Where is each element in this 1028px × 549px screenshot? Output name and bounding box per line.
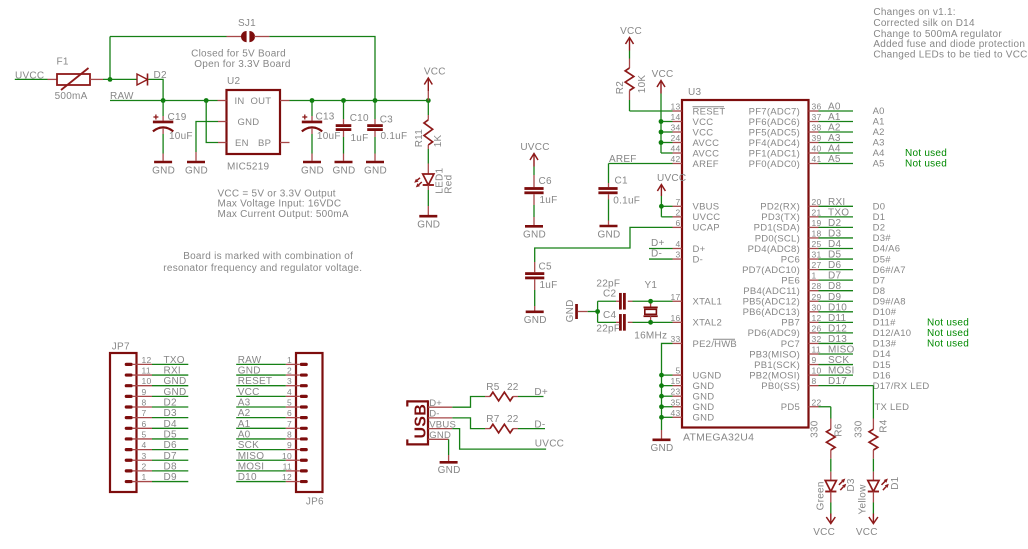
JP7 pin 5 (D5): [125, 437, 133, 440]
svg-text:24: 24: [671, 133, 681, 143]
svg-text:6: 6: [287, 408, 292, 418]
U3 pin 14 (VCC): [673, 121, 683, 123]
JP7 pin 4 (D6): [125, 448, 133, 451]
svg-text:RESET: RESET: [238, 376, 273, 387]
JP7 pin 9 (GND): [125, 395, 133, 398]
net D+ label: [518, 396, 544, 398]
svg-text:GND: GND: [693, 381, 715, 392]
svg-text:A1: A1: [238, 419, 251, 430]
svg-text:BP: BP: [258, 138, 271, 149]
svg-text:2: 2: [287, 366, 292, 376]
JP6 pin 1 (RAW): [300, 363, 308, 366]
svg-text:D14: D14: [873, 349, 891, 360]
svg-text:MOSI: MOSI: [828, 366, 855, 377]
svg-text:IN: IN: [235, 96, 245, 107]
svg-text:PD5: PD5: [781, 402, 800, 413]
LED1 Red: [427, 164, 429, 175]
svg-text:7: 7: [287, 419, 292, 429]
svg-text:D+: D+: [651, 238, 665, 249]
wire D3 to VCC: [830, 503, 832, 514]
ground symbol below C6: [525, 225, 543, 228]
svg-text:D17/RX LED: D17/RX LED: [873, 381, 930, 392]
svg-text:A2: A2: [238, 408, 251, 419]
U3 pin 32 (D13): [809, 342, 819, 344]
svg-text:GND: GND: [693, 402, 715, 413]
capacitor C1 0.1uF: [608, 183, 610, 187]
svg-text:28: 28: [812, 281, 822, 291]
svg-text:D3: D3: [164, 408, 177, 419]
wire crystal ground bus: [588, 311, 598, 313]
junction VCC pin 14: [659, 119, 664, 124]
svg-text:PD1(SDA): PD1(SDA): [754, 223, 800, 234]
wire PE2/HWB to ground bus: [662, 343, 673, 430]
svg-text:GND: GND: [524, 315, 547, 326]
svg-text:D6: D6: [828, 260, 841, 271]
svg-text:TXO: TXO: [828, 207, 849, 218]
svg-text:31: 31: [812, 250, 822, 260]
svg-text:29: 29: [812, 292, 822, 302]
svg-text:UVCC: UVCC: [657, 173, 686, 184]
U3 pin 39 (A3): [809, 142, 819, 144]
svg-text:D16: D16: [873, 370, 891, 381]
svg-text:D4: D4: [828, 239, 841, 250]
svg-text:A5: A5: [873, 159, 885, 170]
svg-text:1K: 1K: [433, 134, 444, 147]
svg-text:D9#/A8: D9#/A8: [873, 296, 906, 307]
svg-text:1: 1: [812, 271, 817, 281]
svg-text:37: 37: [812, 112, 822, 122]
svg-text:D6: D6: [164, 440, 177, 451]
wire SJ1 to VCC rail: [269, 37, 375, 101]
U2 pin EN wire from RAW junction: [206, 101, 218, 143]
JP6 pin 12 (D10): [300, 480, 308, 483]
svg-text:RXI: RXI: [828, 197, 845, 208]
svg-text:330: 330: [810, 420, 821, 438]
svg-text:A3: A3: [873, 138, 885, 149]
svg-text:D12: D12: [828, 323, 847, 334]
svg-text:AREF: AREF: [693, 159, 719, 170]
svg-text:R6: R6: [833, 423, 844, 436]
U3 pin 36 (A0): [809, 110, 819, 112]
wire D1 to VCC: [872, 503, 874, 514]
junction XTAL2: [648, 320, 653, 325]
junction VBUS pin 7: [659, 204, 664, 209]
svg-text:16: 16: [671, 313, 681, 323]
svg-text:0.1uF: 0.1uF: [381, 131, 408, 142]
svg-text:VCC: VCC: [693, 127, 714, 138]
svg-text:Corrected silk on D14: Corrected silk on D14: [873, 18, 975, 29]
U3 pin 10 (MOSI): [809, 374, 819, 376]
svg-text:32: 32: [812, 334, 822, 344]
capacitor C19 10uF: [162, 101, 164, 117]
svg-text:XTAL1: XTAL1: [693, 297, 723, 308]
svg-text:D2: D2: [873, 223, 886, 234]
svg-text:C5: C5: [539, 262, 552, 273]
svg-text:D7: D7: [164, 451, 177, 462]
svg-text:PC7: PC7: [781, 339, 800, 350]
svg-text:44: 44: [671, 144, 681, 154]
svg-text:8: 8: [287, 429, 292, 439]
svg-text:PD6(ADC9): PD6(ADC9): [748, 328, 800, 339]
JP7 pin 6 (D4): [125, 427, 133, 430]
svg-text:GND: GND: [651, 443, 674, 454]
wire fuse to diode: [103, 78, 137, 80]
U3 pin 4 (D+): [673, 248, 683, 250]
U3 pin 35 (GND): [673, 406, 683, 408]
svg-text:22: 22: [507, 414, 519, 425]
svg-text:A2: A2: [828, 123, 841, 134]
U3 pin 34 (VCC): [673, 131, 683, 133]
svg-text:PD7(ADC10): PD7(ADC10): [742, 265, 800, 276]
svg-text:A1: A1: [828, 112, 841, 123]
svg-text:XTAL2: XTAL2: [693, 318, 723, 329]
svg-text:3: 3: [142, 451, 147, 461]
svg-text:2: 2: [142, 461, 147, 471]
svg-text:C10: C10: [350, 113, 369, 124]
svg-text:22: 22: [507, 382, 519, 393]
svg-text:U2: U2: [227, 76, 240, 87]
svg-text:5: 5: [287, 398, 292, 408]
svg-text:1: 1: [287, 355, 292, 365]
svg-text:D7: D7: [873, 275, 886, 286]
U3 pin 43 (GND): [673, 416, 683, 418]
svg-text:RXI: RXI: [164, 366, 181, 377]
JP6 pin 7 (A1): [300, 427, 308, 430]
svg-text:PB1(SCK): PB1(SCK): [754, 360, 800, 371]
svg-text:6: 6: [676, 218, 681, 228]
svg-text:D11#: D11#: [873, 318, 896, 329]
U3 pin 28 (D8): [809, 290, 819, 292]
svg-text:GND: GND: [152, 165, 175, 176]
U2 pin BP stub: [280, 142, 290, 144]
VCC power symbol at regulator output: [424, 78, 432, 85]
wire GND pin 23: [662, 395, 673, 397]
junction GND 43: [659, 415, 664, 420]
svg-text:A0: A0: [873, 106, 885, 117]
svg-text:OUT: OUT: [251, 96, 272, 107]
svg-text:VCC: VCC: [424, 67, 446, 78]
svg-text:C1: C1: [615, 176, 628, 187]
svg-text:35: 35: [671, 397, 681, 407]
svg-text:MISO: MISO: [828, 345, 855, 356]
svg-text:GND: GND: [301, 165, 324, 176]
svg-text:GND: GND: [333, 165, 356, 176]
svg-text:GND: GND: [238, 366, 261, 377]
svg-text:SCK: SCK: [828, 355, 849, 366]
svg-text:7: 7: [142, 408, 147, 418]
svg-text:D5: D5: [828, 250, 841, 261]
svg-text:8: 8: [142, 398, 147, 408]
wire XTAL2 to pin 16: [651, 321, 673, 323]
svg-text:PB6(ADC13): PB6(ADC13): [743, 307, 800, 318]
svg-text:D3#: D3#: [873, 233, 892, 244]
svg-text:12: 12: [812, 313, 822, 323]
svg-text:GND: GND: [598, 229, 621, 240]
wire XTAL1 to pin 17: [651, 300, 673, 302]
svg-text:GND: GND: [364, 165, 387, 176]
svg-text:GND: GND: [164, 376, 187, 387]
VCC power symbol below D1: [869, 517, 878, 524]
JP6 pin 3 (RESET): [300, 384, 308, 387]
svg-text:resonator frequency and regula: resonator frequency and regulator voltag…: [163, 263, 362, 274]
svg-text:MIC5219: MIC5219: [227, 162, 270, 173]
svg-text:D8: D8: [828, 281, 841, 292]
svg-text:A5: A5: [828, 154, 841, 165]
svg-text:D6#/A7: D6#/A7: [873, 265, 906, 276]
junction VCC / R11: [426, 98, 431, 103]
svg-text:Board is marked with combinati: Board is marked with combination of: [183, 251, 353, 262]
svg-text:10: 10: [142, 376, 152, 386]
JP7 pin 1 (D9): [125, 480, 133, 483]
svg-text:Changed LEDs to be tied to VCC: Changed LEDs to be tied to VCC: [873, 49, 1027, 60]
svg-text:Green: Green: [815, 481, 826, 510]
svg-text:13: 13: [671, 102, 681, 112]
svg-text:MISO: MISO: [238, 451, 265, 462]
svg-text:17: 17: [671, 292, 681, 302]
svg-text:10: 10: [812, 366, 822, 376]
svg-text:Not used: Not used: [905, 159, 947, 170]
svg-text:D9: D9: [164, 472, 177, 483]
svg-text:ATMEGA32U4: ATMEGA32U4: [683, 431, 754, 443]
resistor R5 22: [485, 396, 490, 398]
VCC output rail from U2 OUT: [280, 100, 290, 102]
svg-text:GND: GND: [523, 230, 546, 241]
svg-text:20: 20: [812, 197, 822, 207]
U3 pin 1 (D7): [809, 279, 819, 281]
capacitor C6 1uF: [533, 167, 535, 176]
svg-text:GND: GND: [438, 465, 461, 476]
U3 pin 26 (D12): [809, 332, 819, 334]
resistor R11 1K: [427, 101, 429, 116]
svg-text:5: 5: [142, 429, 147, 439]
svg-text:D8: D8: [164, 461, 177, 472]
svg-text:PE2/HWB: PE2/HWB: [693, 339, 738, 350]
svg-text:21: 21: [812, 207, 822, 217]
svg-text:UVCC: UVCC: [520, 142, 549, 153]
ground symbol below C3: [366, 161, 384, 164]
svg-text:19: 19: [812, 218, 822, 228]
svg-text:GND: GND: [185, 165, 208, 176]
svg-text:4: 4: [142, 440, 147, 450]
svg-text:38: 38: [812, 123, 822, 133]
svg-text:SJ1: SJ1: [238, 18, 256, 29]
svg-text:R2: R2: [615, 81, 626, 94]
JP7 pin 11 (RXI): [125, 373, 133, 376]
LED D1 Yellow: [868, 481, 879, 492]
svg-text:AVCC: AVCC: [693, 138, 720, 149]
svg-text:R11: R11: [414, 129, 425, 148]
wire diode to RAW rail: [149, 79, 164, 100]
svg-text:9: 9: [142, 387, 147, 397]
svg-text:Open for 3.3V Board: Open for 3.3V Board: [194, 59, 290, 70]
svg-text:PF1(ADC1): PF1(ADC1): [749, 148, 800, 159]
junction GND 23: [659, 394, 664, 399]
wire R6 to LED D3: [830, 459, 832, 472]
svg-text:D+: D+: [534, 387, 548, 398]
svg-text:14: 14: [671, 112, 681, 122]
junction AVCC pin 24: [659, 140, 664, 145]
svg-text:25: 25: [812, 239, 822, 249]
wire USB GND down: [448, 439, 450, 455]
junction crystal gnd: [595, 309, 600, 314]
svg-text:TX LED: TX LED: [875, 402, 910, 413]
junction RAW / EN: [204, 98, 209, 103]
svg-text:5: 5: [676, 366, 681, 376]
svg-text:A4: A4: [828, 144, 841, 155]
svg-text:18: 18: [812, 228, 822, 238]
svg-text:D10#: D10#: [873, 307, 897, 318]
svg-text:D17: D17: [828, 376, 847, 387]
svg-text:UCAP: UCAP: [693, 223, 720, 234]
capacitor C4 22pF: [598, 321, 616, 323]
U3 pin 37 (A1): [809, 121, 819, 123]
U3 pin 27 (D6): [809, 269, 819, 271]
U3 pin 9 (SCK): [809, 364, 819, 366]
svg-text:PF5(ADC5): PF5(ADC5): [749, 127, 800, 138]
svg-text:A0: A0: [828, 102, 841, 113]
svg-text:Not used: Not used: [927, 339, 969, 350]
svg-text:UGND: UGND: [693, 370, 722, 381]
svg-text:11: 11: [812, 345, 821, 355]
svg-text:PF7(ADC7): PF7(ADC7): [749, 106, 800, 117]
svg-text:U3: U3: [688, 87, 701, 98]
svg-text:MOSI: MOSI: [238, 461, 265, 472]
wire R4 to LED D1: [872, 459, 874, 472]
resistor R7 22: [485, 428, 490, 430]
capacitor C3 0.1uF: [374, 101, 376, 120]
U3 pin 2 (UVCC): [673, 216, 683, 218]
U3 pin 33 (PE2/HWB): [673, 342, 683, 344]
resistor R2 10K pull-up: [629, 51, 631, 59]
svg-text:R4: R4: [878, 419, 889, 432]
diode D2: [137, 74, 148, 85]
svg-text:23: 23: [671, 387, 681, 397]
U3 pin 3 (D-): [673, 258, 683, 260]
svg-text:PB5(ADC12): PB5(ADC12): [743, 297, 800, 308]
svg-text:RESET: RESET: [693, 106, 726, 117]
U2 pin IN stub: [218, 100, 227, 102]
svg-text:PB7: PB7: [781, 318, 800, 329]
svg-text:PD3(TX): PD3(TX): [761, 212, 800, 223]
svg-text:D3: D3: [828, 228, 841, 239]
U3 pin 6 (UCAP): [673, 226, 683, 228]
svg-text:JP6: JP6: [306, 497, 324, 508]
capacitor C2 22pF: [598, 300, 616, 302]
wire VBUS to UVCC: [452, 429, 546, 450]
svg-text:33: 33: [671, 334, 681, 344]
U3 pin 8 (D17): [809, 385, 819, 387]
svg-text:3: 3: [676, 250, 681, 260]
svg-text:PD4(ADC8): PD4(ADC8): [748, 244, 800, 255]
svg-text:330: 330: [854, 420, 865, 438]
U3 pin 30 (D10): [809, 311, 819, 313]
U3 pin 11 (MISO): [809, 353, 819, 355]
svg-text:A0: A0: [238, 429, 251, 440]
svg-text:PB4(ADC11): PB4(ADC11): [743, 286, 800, 297]
net D- label: [518, 428, 545, 430]
resistor R6 330: [830, 419, 832, 430]
wire GND pin 15: [662, 385, 673, 387]
svg-text:1uF: 1uF: [540, 195, 558, 206]
connector JP6 body: [296, 353, 323, 492]
svg-text:RAW: RAW: [238, 355, 262, 366]
svg-text:7: 7: [676, 197, 681, 207]
svg-text:15: 15: [671, 376, 681, 386]
svg-text:VCC: VCC: [693, 117, 714, 128]
U3 pin 22 (PD5): [809, 406, 819, 408]
VCC power symbol below D3: [826, 517, 835, 524]
svg-text:1: 1: [142, 472, 147, 482]
U3 pin 40 (A4): [809, 152, 819, 154]
svg-text:16MHz: 16MHz: [634, 330, 667, 341]
svg-text:D2: D2: [828, 218, 841, 229]
svg-text:Red: Red: [444, 175, 455, 194]
U3 pin 31 (D5): [809, 258, 819, 260]
svg-text:9: 9: [812, 355, 817, 365]
svg-text:Changes on v1.1:: Changes on v1.1:: [873, 7, 955, 18]
ground symbol below LED1: [419, 215, 437, 218]
svg-text:TXO: TXO: [164, 355, 185, 366]
svg-text:Not used: Not used: [927, 328, 969, 339]
junction GND 15: [659, 383, 664, 388]
svg-text:UVCC: UVCC: [693, 212, 721, 223]
U3 pin 42 (AREF): [673, 163, 683, 165]
svg-text:D0: D0: [873, 202, 886, 213]
svg-text:C4: C4: [603, 310, 616, 321]
svg-text:D13#: D13#: [873, 339, 897, 350]
U3 pin 23 (GND): [673, 395, 683, 397]
svg-text:10: 10: [282, 451, 292, 461]
wire UVCC to pins 7/2: [660, 196, 662, 217]
svg-text:1uF: 1uF: [540, 280, 558, 291]
svg-text:GND: GND: [693, 413, 715, 424]
U3 pin 29 (D9): [809, 300, 819, 302]
VCC power symbol above R2: [626, 38, 634, 45]
svg-text:PD0(SCL): PD0(SCL): [755, 233, 800, 244]
svg-text:41: 41: [812, 154, 822, 164]
U3 pin 17 (XTAL1): [673, 300, 683, 302]
U3 pin 12 (D11): [809, 321, 819, 323]
svg-text:42: 42: [671, 154, 681, 164]
ground symbol below C10: [335, 161, 353, 164]
junction RAW / C19: [161, 98, 166, 103]
junction GND 35: [659, 404, 664, 409]
svg-text:D4: D4: [164, 419, 177, 430]
svg-text:VCC: VCC: [652, 69, 674, 80]
svg-text:R5: R5: [486, 382, 499, 393]
svg-text:VCC: VCC: [813, 527, 835, 538]
U3 pin 24 (AVCC): [673, 142, 683, 144]
svg-text:C2: C2: [603, 289, 616, 300]
U3 pin 41 (A5): [809, 163, 819, 165]
JP6 pin 11 (MOSI): [300, 469, 308, 472]
junction VCC / C3 / SJ1: [373, 98, 378, 103]
ground symbol below C19: [154, 161, 172, 164]
svg-text:D7: D7: [828, 271, 841, 282]
solder jumper SJ1: [110, 36, 227, 38]
U3 pin 25 (D4): [809, 248, 819, 250]
svg-text:36: 36: [812, 102, 822, 112]
wire VCC to pins 14/34/24/44: [660, 94, 662, 154]
svg-text:VBUS: VBUS: [693, 202, 720, 213]
junction XTAL1: [648, 299, 653, 304]
wire TX LED (pin 22) to R6: [830, 407, 832, 419]
wire USB D+ to R5: [452, 397, 485, 408]
U3 pin 20 (RXI): [809, 205, 819, 207]
svg-text:C3: C3: [380, 115, 393, 126]
svg-text:10uF: 10uF: [317, 131, 341, 142]
svg-text:10uF: 10uF: [169, 131, 193, 142]
